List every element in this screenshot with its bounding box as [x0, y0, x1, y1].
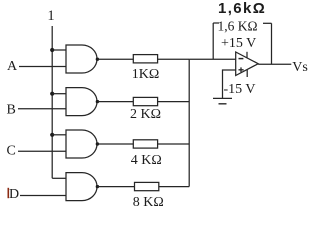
wire: input D to gate U4 — [20, 195, 66, 197]
svg-text:1,6kΩ: 1,6kΩ — [218, 0, 266, 17]
wire: feedback right vertical to output — [271, 23, 273, 64]
wire: U2 output to R2 — [97, 101, 133, 103]
wire: U3 output to R3 — [97, 143, 133, 145]
svg-text:4 KΩ: 4 KΩ — [131, 153, 162, 168]
resistor R4 body — [135, 182, 159, 190]
resistor R2 body — [133, 97, 157, 105]
wire: input bus vertical from node 1 — [51, 26, 53, 178]
wire: +15V supply tick — [246, 52, 248, 58]
svg-text:8 KΩ: 8 KΩ — [133, 195, 164, 210]
op-amp non-inverting sign — [239, 67, 244, 72]
AND gate U4 — [66, 173, 97, 201]
junction dot at U4 output — [96, 185, 99, 188]
junction dot at U2 output — [96, 100, 99, 103]
wire: R3 to summing bus — [158, 143, 190, 145]
ground symbol — [213, 98, 232, 103]
wire: input A to gate U1 — [19, 66, 66, 68]
svg-text:A: A — [7, 59, 18, 74]
wire: feedback top-right segment — [263, 22, 272, 24]
wire: input B to gate U2 — [18, 108, 66, 110]
wire: bus corner stub to gate U4 upper input — [52, 177, 66, 179]
resistor R3 body — [133, 140, 157, 148]
resistor R1 body — [133, 55, 157, 63]
junction dot at U3 output — [96, 142, 99, 145]
wire: R1 to summing bus — [158, 58, 190, 60]
AND gate U3 — [66, 130, 97, 158]
wire: stub bus to U3 upper input — [52, 134, 66, 136]
svg-text:2 KΩ: 2 KΩ — [130, 107, 161, 122]
wire: R2 to summing bus — [158, 101, 190, 103]
wire: non-inverting input to ground — [223, 70, 236, 98]
AND gate U1 — [66, 45, 97, 73]
wire: summing bus vertical — [188, 59, 190, 186]
svg-text:B: B — [7, 103, 16, 118]
cursor mark left of D — [7, 188, 9, 198]
wire: feedback top-left corner — [213, 22, 219, 24]
svg-text:1,6 KΩ: 1,6 KΩ — [218, 19, 258, 34]
svg-text:Vs: Vs — [292, 60, 308, 75]
wire: input C to gate U3 — [18, 150, 66, 152]
AND gate U2 — [66, 88, 97, 116]
wire: op-amp output — [258, 63, 291, 65]
wire: U1 output to R1 — [97, 58, 133, 60]
wire: -15V supply tick — [246, 70, 248, 77]
junction dot at gate U1 tap — [50, 48, 54, 52]
op-amp U5 — [236, 52, 259, 76]
op-amp inverting sign — [239, 58, 244, 60]
svg-text:-15 V: -15 V — [224, 82, 256, 97]
svg-text:1: 1 — [47, 8, 54, 24]
junction dot at gate U3 tap — [50, 133, 54, 137]
svg-text:C: C — [7, 144, 16, 159]
wire: stub bus to U1 upper input — [52, 49, 66, 51]
svg-text:D: D — [9, 187, 19, 202]
wire: stub bus to U2 upper input — [52, 93, 66, 95]
wire: U4 output to R4 — [97, 186, 134, 188]
junction dot at U1 output — [96, 58, 99, 61]
svg-text:+15 V: +15 V — [221, 36, 256, 51]
svg-text:1KΩ: 1KΩ — [132, 67, 160, 82]
wire: summing node to op-amp inverting input — [189, 58, 236, 60]
junction dot at gate U2 tap — [50, 92, 54, 96]
wire: feedback left vertical — [212, 23, 214, 59]
wire: R4 to summing bus — [159, 186, 189, 188]
